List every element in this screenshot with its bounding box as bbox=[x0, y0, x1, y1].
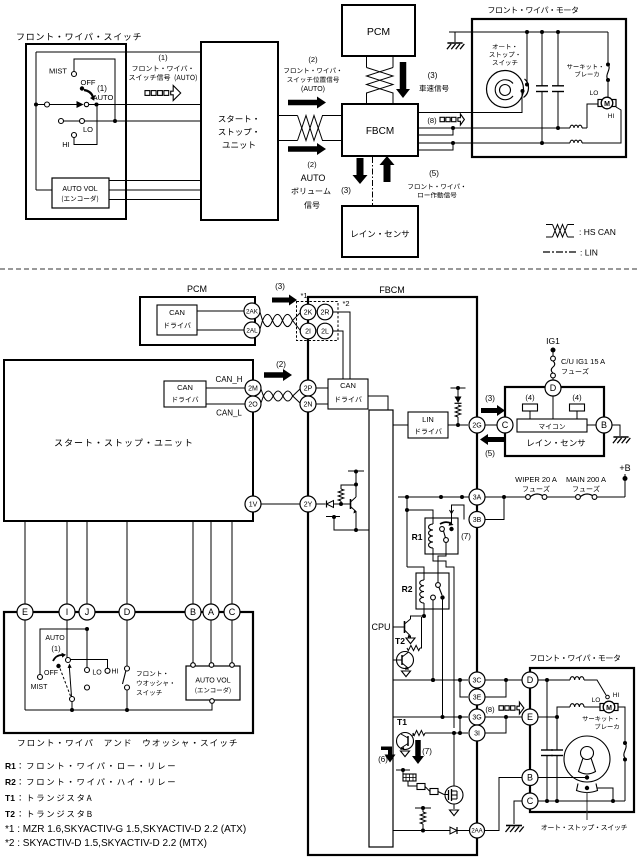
svg-text:LIN: LIN bbox=[422, 415, 434, 424]
MOSFET source to ground bbox=[453, 804, 455, 809]
contact blade bbox=[524, 79, 529, 98]
R1 contacts bbox=[440, 527, 445, 532]
svg-text:2Y: 2Y bbox=[304, 502, 313, 509]
label front wiper motor bbox=[531, 654, 620, 661]
wire R1 contact to R2 contact bbox=[438, 543, 446, 583]
dashed rotor travel bbox=[60, 669, 71, 697]
svg-text:D: D bbox=[124, 607, 131, 617]
svg-text:R1: R1 bbox=[412, 532, 423, 542]
wire: FBCM to motor (auto stop) bbox=[417, 93, 522, 113]
svg-text:FBCM: FBCM bbox=[379, 285, 405, 295]
wires into encoder bbox=[192, 620, 194, 663]
arrow: auto volume signal bbox=[288, 143, 326, 155]
pin 3C bbox=[469, 672, 485, 688]
capacitor leg 1 bbox=[541, 32, 543, 86]
pin 3I bbox=[469, 725, 485, 741]
svg-text:2L: 2L bbox=[321, 329, 329, 336]
svg-text:PCM: PCM bbox=[367, 26, 390, 38]
wire: stub pair LO bbox=[417, 128, 453, 135]
washer switch contacts bbox=[125, 666, 130, 671]
svg-text:R1: R1 bbox=[5, 761, 16, 771]
capacitor leg 2 (lower) bbox=[556, 717, 558, 750]
arrow (5) from rain sensor bbox=[480, 434, 504, 445]
pin E bbox=[17, 604, 33, 620]
fuse MAIN bbox=[576, 495, 581, 500]
front wiper switch box bbox=[26, 44, 126, 219]
twisted pair unit-FBCM bbox=[261, 389, 300, 401]
front wiper motor box (top) bbox=[472, 19, 626, 157]
svg-text:(2): (2) bbox=[307, 160, 317, 169]
wire C to ground bbox=[514, 801, 522, 824]
svg-text:(2): (2) bbox=[308, 55, 318, 64]
svg-text:2K: 2K bbox=[304, 310, 313, 317]
CAN driver box (unit) bbox=[164, 381, 206, 407]
wire R2 NC contact down bbox=[432, 600, 434, 680]
wire 2O bbox=[206, 403, 245, 405]
wire: FBCM to motor HI bbox=[417, 142, 570, 144]
MOSFET Q1 bbox=[444, 794, 449, 796]
pin D (rain) bbox=[545, 380, 561, 396]
HS CAN twisted pair PCM-FBCM bbox=[366, 56, 368, 68]
svg-text:2G: 2G bbox=[472, 423, 481, 430]
legend HS CAN bbox=[546, 224, 553, 226]
capacitor leg 1 (lower) bbox=[546, 680, 548, 750]
arrow: switch position signal bbox=[288, 97, 326, 109]
contact HI bbox=[72, 133, 77, 138]
coil: HI winding bbox=[570, 140, 582, 143]
svg-text:LO: LO bbox=[590, 90, 599, 97]
pin D bbox=[119, 604, 135, 620]
pin C (rain) bbox=[497, 417, 513, 433]
svg-text:(1): (1) bbox=[97, 84, 107, 93]
wire 3G to E bbox=[484, 716, 522, 718]
svg-text:(3): (3) bbox=[485, 394, 495, 403]
svg-text:C/U IG1 15 A: C/U IG1 15 A bbox=[561, 357, 605, 366]
contact: moving arm bbox=[77, 102, 83, 107]
svg-text:(2): (2) bbox=[276, 360, 286, 369]
svg-text:HI: HI bbox=[608, 113, 615, 120]
svg-text:A: A bbox=[208, 607, 214, 617]
label leader bbox=[586, 792, 588, 820]
svg-text:HI: HI bbox=[112, 669, 119, 676]
wire: motor internal rail bbox=[455, 31, 608, 33]
node OFF bbox=[56, 664, 60, 668]
pin 3A bbox=[469, 489, 485, 505]
svg-text:2O: 2O bbox=[248, 402, 258, 409]
auto stop segment bbox=[577, 784, 598, 793]
wire CPU to T2 base bbox=[393, 626, 405, 628]
arrow: switch rotation bbox=[84, 90, 93, 97]
label: front wiper switch title bbox=[17, 33, 141, 41]
wire 2P to CAN driver bbox=[316, 387, 328, 389]
arrow (3) to rain sensor bbox=[481, 405, 505, 416]
driver transistor Q2 bbox=[397, 652, 414, 669]
LIN driver box bbox=[408, 412, 448, 438]
pin 2I bbox=[300, 323, 316, 339]
resistor T1 base bbox=[413, 730, 425, 735]
wire 1V-2Y bbox=[261, 503, 300, 505]
svg-text:1V: 1V bbox=[249, 502, 258, 509]
svg-text:WIPER 20 A: WIPER 20 A bbox=[515, 475, 557, 484]
auto stop switch label bbox=[493, 44, 516, 49]
wire: HI bracket bbox=[74, 105, 97, 145]
wire 3B to rail bbox=[485, 497, 504, 520]
wire segment to C bbox=[598, 788, 614, 801]
wire C bus bbox=[538, 800, 625, 802]
label: wiper and washer switch bbox=[18, 739, 237, 747]
vertical wires to wiper/washer switch bbox=[24, 521, 26, 604]
svg-text:LO: LO bbox=[92, 670, 102, 677]
start-stop unit box (top) bbox=[201, 42, 278, 220]
svg-text:M: M bbox=[606, 705, 612, 712]
svg-text:B: B bbox=[601, 420, 607, 430]
svg-text:: HS CAN: : HS CAN bbox=[579, 227, 616, 237]
T2 emitter to ground bbox=[410, 636, 412, 638]
relay R1 box bbox=[425, 518, 458, 554]
node IG1 bbox=[551, 348, 556, 353]
microcomputer box bbox=[517, 419, 587, 432]
wire 2M bbox=[206, 387, 245, 389]
wire: FBCM to motor LO bbox=[417, 127, 570, 129]
svg-text:*1 : MZR 1.6,SKYACTIV-G 1.5,SK: *1 : MZR 1.6,SKYACTIV-G 1.5,SKYACTIV-D 2… bbox=[5, 824, 246, 835]
svg-text:(5): (5) bbox=[485, 449, 495, 458]
rotor contact bbox=[66, 658, 71, 663]
svg-text:2N: 2N bbox=[304, 402, 313, 409]
pin 2AA bbox=[470, 823, 485, 838]
auto stop plate bbox=[564, 736, 610, 782]
contact LO pair bbox=[86, 629, 88, 668]
svg-text:T2: T2 bbox=[395, 636, 405, 646]
svg-text:3E: 3E bbox=[473, 695, 482, 702]
pin 2Y circuit: input diode bbox=[316, 503, 326, 505]
svg-text:CAN: CAN bbox=[177, 383, 193, 392]
svg-text:I: I bbox=[66, 607, 69, 617]
svg-text:AUTO: AUTO bbox=[301, 173, 326, 183]
wire B brush bbox=[538, 777, 585, 779]
svg-text:2P: 2P bbox=[304, 386, 313, 393]
pin C (motor) bbox=[522, 793, 538, 809]
wire B to 2AA bbox=[485, 778, 523, 831]
svg-text:IG1: IG1 bbox=[546, 336, 560, 346]
svg-text:B: B bbox=[527, 773, 533, 783]
svg-text:C: C bbox=[527, 796, 534, 806]
pin 3E bbox=[469, 689, 485, 705]
wire: stub pair HI bbox=[417, 143, 453, 150]
rain sensor box (top) bbox=[342, 206, 418, 257]
encoder contacts bbox=[191, 663, 196, 668]
svg-text:C: C bbox=[229, 607, 236, 617]
wire MIST to J node bbox=[40, 629, 87, 675]
wire +B feed to relay coils bbox=[406, 497, 408, 567]
svg-text:R2: R2 bbox=[402, 584, 413, 594]
svg-text:CAN_H: CAN_H bbox=[215, 375, 242, 384]
wire D into motor bbox=[538, 679, 570, 681]
svg-text:T1: T1 bbox=[5, 793, 15, 803]
link 3E to D wire bbox=[484, 680, 506, 697]
R2 coil bbox=[420, 580, 424, 603]
svg-text:CAN: CAN bbox=[340, 381, 356, 390]
LIN symbol (8) bbox=[440, 117, 444, 121]
wire +B down bbox=[624, 474, 626, 497]
svg-text:: LIN: : LIN bbox=[580, 248, 598, 258]
link 3I to 3G bbox=[460, 717, 468, 733]
pin 3G bbox=[469, 709, 485, 725]
zener diode bbox=[455, 397, 462, 404]
wire 2AK bbox=[197, 310, 244, 312]
svg-text:2R: 2R bbox=[321, 310, 330, 317]
contact LO bbox=[59, 119, 64, 124]
svg-text:CPU: CPU bbox=[371, 622, 390, 632]
wire: MIST bracket bbox=[74, 59, 115, 121]
transistor buffer bbox=[341, 503, 351, 505]
sensor element right bbox=[570, 404, 585, 411]
svg-text:(3): (3) bbox=[275, 282, 285, 291]
HS CAN twisted pair unit-FBCM bbox=[278, 115, 298, 117]
capacitor leg 2 bbox=[557, 32, 559, 86]
pin 1V bbox=[245, 496, 261, 512]
common contact bbox=[70, 697, 75, 702]
svg-text:LO: LO bbox=[83, 125, 93, 134]
circuit breaker contacts bbox=[607, 32, 609, 63]
wire: encoder signals bbox=[109, 180, 201, 182]
node OFF bbox=[80, 86, 84, 90]
svg-text:CAN_L: CAN_L bbox=[216, 409, 242, 418]
wire 3C to D bbox=[484, 679, 522, 681]
svg-text:(7): (7) bbox=[461, 532, 471, 541]
open contact bbox=[45, 102, 50, 107]
motor M (lower) bbox=[600, 704, 604, 711]
svg-text:3G: 3G bbox=[472, 715, 481, 722]
svg-text:B: B bbox=[190, 607, 196, 617]
arrow (3) bbox=[272, 295, 297, 306]
svg-text:CAN: CAN bbox=[169, 308, 185, 317]
svg-text:(7): (7) bbox=[422, 747, 432, 756]
wire R1 coil bottom to output column bbox=[433, 548, 454, 728]
svg-text:MIST: MIST bbox=[31, 684, 48, 691]
arrow (6) bbox=[381, 747, 396, 763]
wire: inner bus vertical bbox=[35, 52, 37, 190]
resistor bbox=[338, 489, 344, 501]
rail stub bbox=[451, 387, 466, 389]
wire 3A rail bbox=[398, 496, 469, 498]
arrow (2) bbox=[264, 369, 292, 381]
svg-text:*2: *2 bbox=[342, 299, 349, 308]
link 3I to E wire bbox=[484, 717, 506, 733]
wire: encoder bottom link bbox=[36, 189, 52, 191]
driver transistor T1 bbox=[397, 733, 414, 750]
R1 coil bbox=[429, 524, 434, 548]
CAN driver box (FBCM) bbox=[328, 379, 368, 409]
PCM box (top) bbox=[342, 5, 415, 56]
svg-text:AUTO VOL: AUTO VOL bbox=[195, 678, 230, 685]
wire 3G net bbox=[393, 716, 468, 718]
pin D (motor) bbox=[522, 672, 538, 688]
wire CPU to 2AA with diode bbox=[393, 830, 450, 832]
pin I bbox=[59, 604, 75, 620]
wire D to washer switch bbox=[126, 620, 128, 666]
svg-text:MAIN 200 A: MAIN 200 A bbox=[566, 475, 606, 484]
wire: wiper switch output 1 bbox=[36, 104, 77, 106]
wire 2L to CAN driver bbox=[333, 331, 343, 379]
svg-text:E: E bbox=[22, 607, 28, 617]
svg-text:(8): (8) bbox=[427, 116, 437, 125]
legend LIN bbox=[543, 251, 577, 253]
svg-text:MIST: MIST bbox=[49, 67, 67, 76]
label rain sensor bbox=[528, 439, 585, 446]
auto stop switch plate bbox=[487, 71, 524, 108]
svg-text:HI: HI bbox=[613, 692, 620, 699]
svg-text:3C: 3C bbox=[473, 678, 482, 685]
svg-text:(3): (3) bbox=[428, 71, 438, 80]
transistor T2 bbox=[404, 621, 406, 633]
AUTO VOL encoder box bbox=[52, 178, 109, 208]
thermal element bbox=[396, 769, 410, 771]
pin 3B bbox=[469, 512, 485, 528]
dashed box around 2K 2R 2I 2L bbox=[297, 302, 339, 341]
svg-text:(4): (4) bbox=[525, 393, 535, 402]
contact MIST bbox=[72, 72, 77, 77]
pin 2R bbox=[317, 304, 333, 320]
pin 2L bbox=[317, 323, 333, 339]
svg-text:(1): (1) bbox=[51, 644, 61, 653]
wire micon to B bbox=[587, 424, 596, 426]
svg-text:D: D bbox=[550, 383, 557, 393]
wire: to auto stop blade bbox=[526, 32, 528, 82]
label auto stop switch bbox=[541, 824, 627, 830]
svg-text:LO: LO bbox=[592, 697, 601, 704]
svg-text:E: E bbox=[527, 712, 533, 722]
svg-text:AUTO: AUTO bbox=[93, 93, 114, 102]
wire MOSFET drain from R1 bbox=[453, 733, 455, 786]
wire R2 coil bottom to T2 bbox=[423, 603, 425, 616]
pin J bbox=[79, 604, 95, 620]
svg-text:HI: HI bbox=[62, 140, 70, 149]
wire LIN driver to 2G bbox=[448, 424, 468, 426]
fuse C/U IG1 bbox=[552, 350, 554, 356]
svg-text:2AA: 2AA bbox=[471, 829, 482, 835]
svg-text:AUTO VOL: AUTO VOL bbox=[62, 186, 97, 193]
coil: LO winding bbox=[570, 125, 582, 128]
sensor element left bbox=[523, 404, 538, 411]
arrow: vehicle speed signal down bbox=[396, 62, 410, 98]
FBCM box (lower) bbox=[308, 297, 477, 855]
LIN symbol (1) bbox=[145, 91, 150, 96]
pin 2M bbox=[245, 380, 261, 396]
svg-text:2AK: 2AK bbox=[246, 308, 259, 315]
circuit breaker label (top) bbox=[567, 64, 602, 69]
svg-text:OFF: OFF bbox=[81, 78, 96, 87]
wire 2N to CAN driver bbox=[316, 403, 328, 405]
LIN pull-up resistor bbox=[455, 405, 461, 417]
svg-text:T2: T2 bbox=[5, 809, 15, 819]
svg-text:R2: R2 bbox=[5, 777, 16, 787]
contact HI bbox=[105, 668, 110, 673]
pin 2AK bbox=[244, 303, 260, 319]
pin E (motor) bbox=[522, 709, 538, 725]
CAN driver box (PCM) bbox=[157, 305, 197, 335]
front wiper motor box (lower) bbox=[530, 668, 634, 812]
wire E into motor bbox=[538, 716, 557, 718]
wire M to breaker bbox=[618, 707, 625, 742]
coupler symbols bbox=[408, 781, 417, 786]
motor M (top) bbox=[598, 100, 602, 107]
pin 2O bbox=[245, 396, 261, 412]
wire: wiper switch output 2 bbox=[64, 120, 202, 122]
svg-text:(4): (4) bbox=[572, 393, 582, 402]
twisted pair PCM-FBCM bbox=[260, 312, 300, 327]
wire CAN driver to CPU bbox=[368, 396, 388, 410]
rain sensor box (lower) bbox=[505, 387, 604, 456]
svg-text:*2 : SKYACTIV-D 1.5,SKYACTIV-D: *2 : SKYACTIV-D 1.5,SKYACTIV-D 2.2 (MTX) bbox=[5, 838, 207, 849]
wire R2 common down bbox=[442, 600, 444, 718]
svg-text:*1: *1 bbox=[300, 291, 307, 300]
wiper and washer switch box bbox=[4, 612, 253, 733]
arrow (7) bbox=[412, 740, 424, 764]
svg-text:2AL: 2AL bbox=[246, 327, 258, 334]
wire 3B to R1 contact bbox=[452, 505, 465, 524]
separator dashed line bbox=[0, 268, 640, 270]
svg-text:3I: 3I bbox=[474, 731, 480, 738]
svg-text:(8): (8) bbox=[485, 705, 495, 714]
svg-text:(1): (1) bbox=[158, 53, 168, 62]
pin 2AL bbox=[244, 322, 260, 338]
CPU box bbox=[369, 410, 393, 847]
pin A bbox=[203, 604, 219, 620]
arrow (3) down to rain sensor bbox=[353, 158, 368, 184]
svg-text:J: J bbox=[85, 607, 90, 617]
AUTO VOL encoder box bbox=[186, 666, 240, 700]
svg-text:2M: 2M bbox=[248, 386, 258, 393]
svg-text:(AUTO): (AUTO) bbox=[301, 86, 325, 93]
svg-text:D: D bbox=[527, 675, 534, 685]
wiper arm with arrow bbox=[69, 667, 71, 697]
LIN dash-dot FBCM-rain sensor bbox=[372, 157, 374, 206]
ground (top left of motor) bbox=[449, 31, 455, 33]
label washer switch bbox=[137, 671, 166, 676]
wire to R1 coil bbox=[407, 510, 433, 524]
svg-text:3A: 3A bbox=[473, 495, 482, 502]
R2 contacts bbox=[436, 583, 441, 588]
wire: switch signal to start-stop unit (top) bbox=[36, 51, 201, 53]
svg-text:FBCM: FBCM bbox=[366, 126, 394, 137]
encoder common contact bbox=[210, 699, 215, 704]
arrow: switch rotation bbox=[53, 655, 62, 661]
svg-text:(5): (5) bbox=[429, 169, 439, 178]
pin 2Y bbox=[300, 496, 316, 512]
contact MIST bbox=[38, 675, 43, 680]
wire CPU to LIN driver bbox=[393, 424, 408, 426]
svg-text:C: C bbox=[502, 420, 509, 430]
FBCM box (top) bbox=[342, 104, 418, 156]
link 3E to 3C bbox=[460, 680, 468, 697]
pin B bbox=[185, 604, 201, 620]
svg-text:OFF: OFF bbox=[44, 670, 58, 677]
wire 2R to CAN driver bbox=[333, 312, 350, 379]
pull-down resistor bbox=[415, 807, 431, 809]
svg-text:(6): (6) bbox=[378, 755, 388, 764]
wire rotor to HI bbox=[71, 660, 108, 669]
arrow (5) up from rain sensor bbox=[380, 156, 395, 182]
relay R2 box bbox=[416, 573, 449, 609]
wire B to ground bbox=[612, 425, 620, 436]
PCM box (lower) bbox=[140, 297, 255, 345]
resistor T2 out bbox=[407, 645, 420, 650]
svg-text:M: M bbox=[604, 101, 610, 108]
wire 2AL bbox=[197, 329, 244, 331]
svg-text:T1: T1 bbox=[397, 717, 407, 727]
wire I to rotor bbox=[66, 620, 68, 658]
start-stop unit box (lower) bbox=[4, 360, 253, 521]
